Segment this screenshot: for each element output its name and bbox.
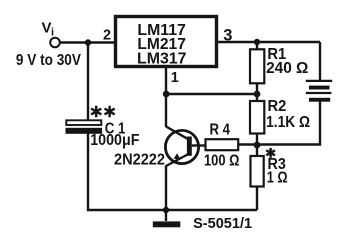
svg-text:240 Ω: 240 Ω: [266, 60, 308, 77]
svg-text:9 V to 30V: 9 V to 30V: [16, 52, 82, 69]
svg-text:1 Ω: 1 Ω: [267, 170, 288, 187]
svg-text:1.1K Ω: 1.1K Ω: [266, 114, 310, 131]
svg-text:R2: R2: [268, 98, 287, 115]
svg-text:i: i: [51, 27, 54, 39]
svg-text:2: 2: [103, 28, 111, 44]
svg-text:100 Ω: 100 Ω: [204, 153, 240, 170]
svg-text:S-5051/1: S-5051/1: [193, 216, 252, 232]
svg-text:LM317: LM317: [137, 51, 187, 68]
svg-text:1: 1: [171, 70, 179, 86]
svg-text:2N2222: 2N2222: [114, 152, 165, 169]
svg-text:1000μF: 1000μF: [90, 132, 139, 149]
svg-text:3: 3: [223, 27, 232, 45]
svg-text:R 4: R 4: [210, 121, 231, 138]
svg-text:V: V: [42, 20, 52, 37]
